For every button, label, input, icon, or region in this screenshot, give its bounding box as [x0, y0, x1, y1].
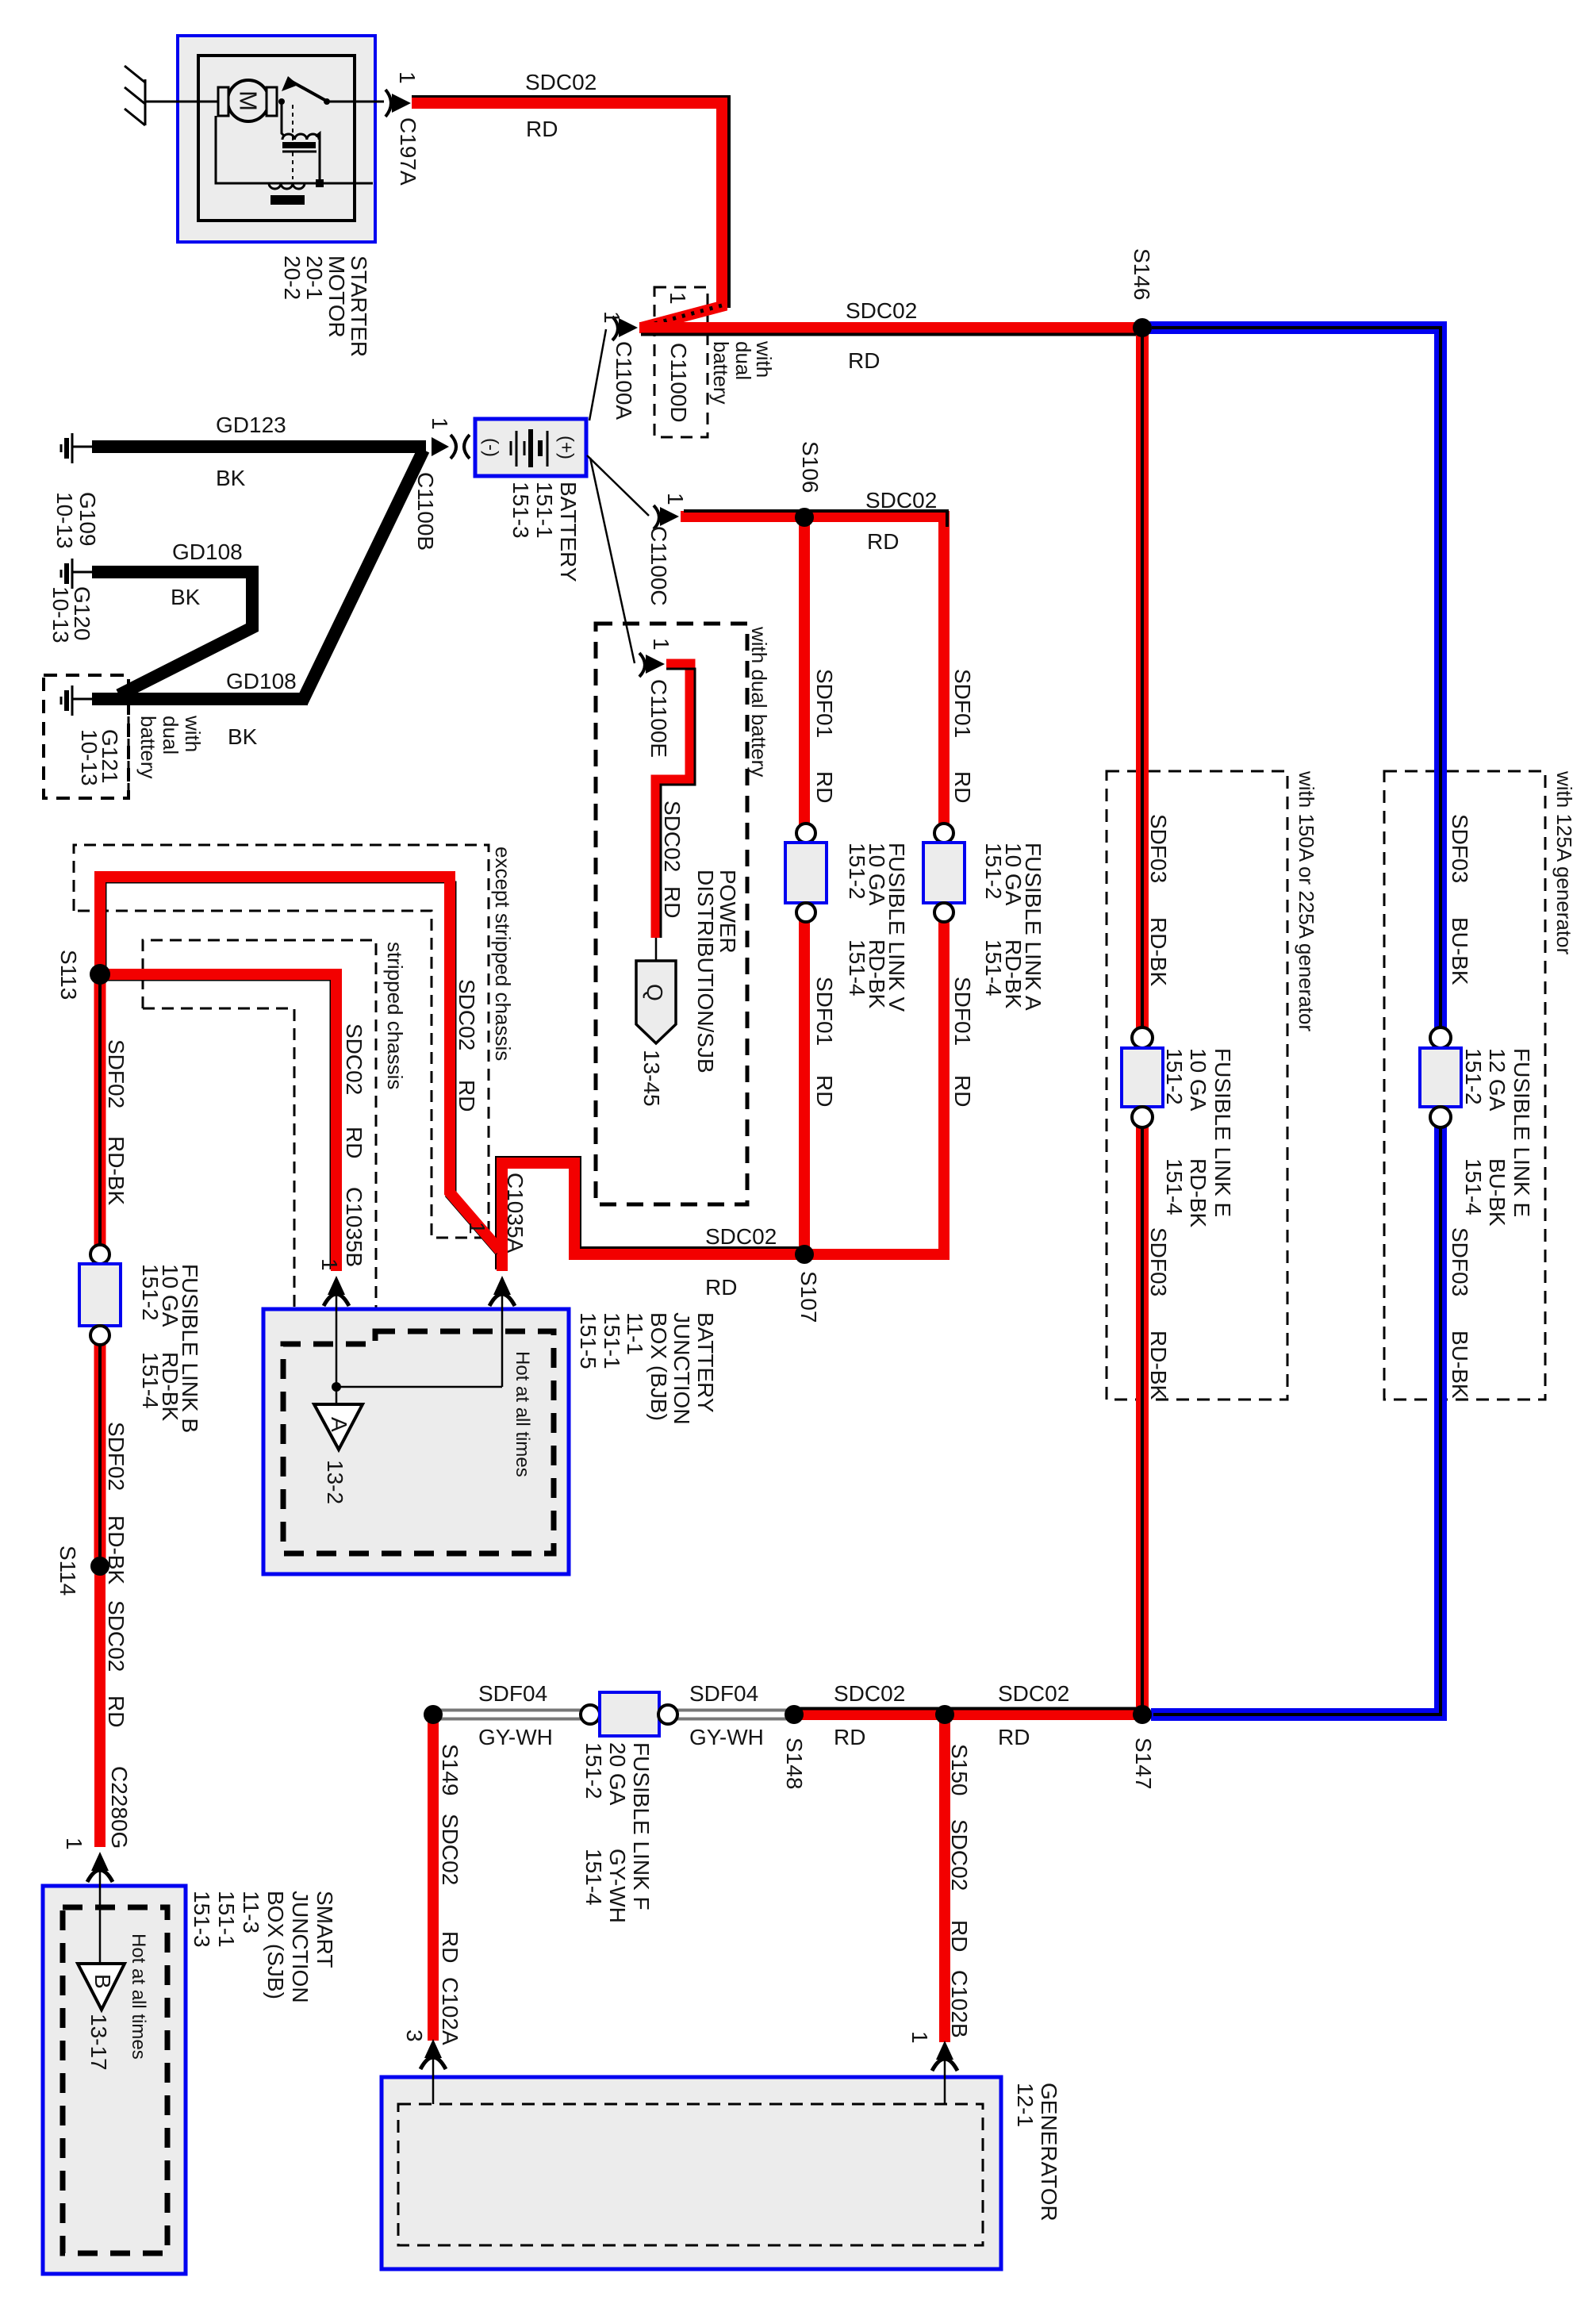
starter ground (hatched) — [125, 66, 219, 125]
svg-text:3: 3 — [402, 2029, 427, 2042]
svg-text:GD108: GD108 — [172, 540, 243, 564]
svg-text:RD: RD — [848, 348, 880, 373]
svg-text:BOX (SJB): BOX (SJB) — [263, 1891, 288, 1999]
svg-text:SDC02: SDC02 — [525, 70, 597, 94]
wire BK diagonal C1100B to G121 — [302, 450, 424, 701]
wire SDF01 RD (link A to S107 corner) — [801, 920, 944, 1254]
svg-text:C1035B: C1035B — [342, 1187, 366, 1267]
wire SDF01 RD (link V down to S107) — [799, 920, 810, 1260]
svg-text:151-2: 151-2 — [845, 843, 869, 900]
svg-text:BK: BK — [171, 585, 201, 609]
svg-text:S106: S106 — [798, 441, 823, 493]
svg-text:SDF04: SDF04 — [478, 1681, 547, 1706]
thin line battery to C1100A — [589, 329, 606, 420]
svg-text:12-1: 12-1 — [1013, 2083, 1038, 2127]
svg-text:1: 1 — [62, 1837, 86, 1850]
svg-text:151-2: 151-2 — [981, 843, 1006, 900]
svg-text:SMART: SMART — [313, 1891, 337, 1968]
svg-text:RD: RD — [438, 1931, 462, 1963]
svg-text:GD108: GD108 — [226, 669, 297, 693]
wire SDC02 RD (battery C1100E into power dist box) — [656, 664, 690, 938]
svg-text:battery: battery — [136, 716, 160, 779]
svg-text:BU-BK: BU-BK — [1448, 1331, 1472, 1399]
wire SDC02 RD (S149 down to C102A) — [428, 1715, 439, 2041]
SJB inner dashed outline — [63, 1907, 167, 2253]
svg-text:C102A: C102A — [438, 1977, 462, 2045]
svg-text:S114: S114 — [56, 1546, 80, 1596]
svg-text:151-1: 151-1 — [214, 1891, 239, 1948]
svg-text:DISTRIBUTION/SJB: DISTRIBUTION/SJB — [693, 870, 718, 1073]
svg-text:BU-BK: BU-BK — [1485, 1158, 1510, 1227]
wire SDF04 GY-WH (link F to S148) — [676, 1709, 794, 1721]
svg-text:20-2: 20-2 — [280, 255, 305, 300]
ground G109 symbol — [61, 433, 94, 463]
svg-text:SDF01: SDF01 — [812, 977, 837, 1046]
svg-text:151-5: 151-5 — [576, 1312, 600, 1369]
connector C1035A symbol — [489, 1276, 515, 1387]
svg-text:with dual battery: with dual battery — [747, 626, 771, 777]
svg-text:RD: RD — [947, 1920, 972, 1952]
connector C1100A symbol — [612, 317, 638, 340]
wire SDC02 RD (C1100C to S106 corner) — [681, 516, 944, 825]
svg-text:20 GA: 20 GA — [605, 1742, 630, 1806]
svg-text:GY-WH: GY-WH — [478, 1725, 553, 1749]
wire SDC02 RD (S107 to C1035A jog): black edge — [497, 1158, 804, 1269]
fusible link F — [581, 1692, 677, 1736]
starter motor symbol — [216, 76, 384, 205]
svg-text:12 GA: 12 GA — [1485, 1048, 1510, 1112]
wire SDC02 RD (S107 left, jog up-over-down to C1035A) — [502, 1163, 804, 1271]
svg-text:SDF03: SDF03 — [1448, 814, 1472, 883]
wire SDC02 RD from C197A: black top edge — [412, 97, 729, 308]
wire SDC02 RD stripped chassis: black edge — [100, 980, 331, 1269]
svg-text:151-4: 151-4 — [581, 1849, 606, 1906]
wire SDC02 RD main horizontal (C1100A to S146) — [639, 322, 1147, 333]
wire GD108 BK (G121 to diagonal) — [92, 693, 308, 705]
svg-text:RD: RD — [812, 771, 837, 803]
wire SDF03 BU-BK (S146 right, down, to S147): blue with black stripe — [1149, 328, 1441, 1028]
svg-text:C1100B: C1100B — [413, 472, 438, 551]
wire SDC02 RD except stripped chassis (S113 up, right, down, diagonal to C1035A) — [100, 877, 500, 1250]
svg-text:C102B: C102B — [947, 1970, 972, 2038]
ground G121 symbol — [61, 685, 94, 716]
svg-text:SDC02: SDC02 — [834, 1681, 905, 1706]
svg-text:RD: RD — [834, 1725, 865, 1749]
svg-text:GY-WH: GY-WH — [605, 1849, 630, 1923]
svg-text:RD-BK: RD-BK — [104, 1136, 129, 1205]
svg-text:151-2: 151-2 — [138, 1264, 163, 1321]
svg-text:RD: RD — [455, 1080, 479, 1112]
svg-text:SDC02: SDC02 — [438, 1814, 462, 1885]
connector C197A symbol — [355, 90, 411, 117]
fusible link B — [79, 1245, 121, 1345]
SJB box (smart junction box) — [43, 1886, 186, 2274]
svg-text:RD: RD — [342, 1127, 366, 1158]
power distribution symbol Q (pentagon) — [636, 961, 676, 1043]
splice S114 — [90, 1557, 109, 1576]
svg-text:10 GA: 10 GA — [1186, 1048, 1210, 1112]
svg-text:S148: S148 — [782, 1738, 807, 1789]
svg-text:1: 1 — [649, 638, 673, 651]
svg-text:C1100E: C1100E — [646, 679, 671, 758]
svg-text:151-3: 151-3 — [190, 1891, 214, 1948]
svg-text:SDC02: SDC02 — [947, 1819, 972, 1891]
svg-text:SDF04: SDF04 — [689, 1681, 758, 1706]
svg-text:RD: RD — [526, 117, 558, 141]
svg-text:with 125A generator: with 125A generator — [1552, 770, 1576, 955]
svg-text:13-2: 13-2 — [323, 1460, 347, 1504]
svg-text:SDC02: SDC02 — [705, 1224, 777, 1249]
splice S149 — [424, 1705, 443, 1724]
wire SDC02 RD (S150 down to C102B) — [939, 1715, 950, 2042]
svg-text:except stripped chassis: except stripped chassis — [491, 847, 515, 1061]
svg-text:S146: S146 — [1130, 248, 1154, 300]
svg-text:RD-BK: RD-BK — [1186, 1158, 1210, 1227]
svg-text:10-13: 10-13 — [52, 492, 77, 549]
starter solenoid switch — [278, 98, 285, 105]
triangle B (power feed) — [78, 1964, 125, 2010]
svg-text:151-1: 151-1 — [532, 482, 557, 539]
svg-text:1: 1 — [428, 417, 452, 430]
svg-text:FUSIBLE LINK E: FUSIBLE LINK E — [1510, 1048, 1534, 1217]
svg-text:(-): (-) — [481, 438, 502, 457]
svg-text:151-2: 151-2 — [1162, 1048, 1187, 1105]
option box: with 150A or 225A generator — [1107, 771, 1287, 1400]
svg-text:SDF01: SDF01 — [812, 669, 837, 738]
svg-text:B: B — [90, 1974, 115, 1989]
svg-text:SDF02: SDF02 — [104, 1422, 129, 1491]
svg-text:battery: battery — [709, 341, 733, 405]
thin line battery to C1100E — [590, 458, 635, 663]
svg-text:20-1: 20-1 — [302, 255, 327, 300]
wire GD123 BK (G109 to C1100B) — [92, 440, 426, 453]
generator inner dashed outline — [398, 2104, 983, 2245]
DASHED — [44, 287, 1545, 1400]
svg-text:SDC02: SDC02 — [660, 801, 685, 872]
svg-text:151-2: 151-2 — [1461, 1048, 1486, 1105]
svg-text:SDF03: SDF03 — [1448, 1227, 1472, 1296]
dotted overlay on C1100A diagonal — [643, 305, 722, 327]
splice S148 — [785, 1705, 804, 1724]
svg-text:SDF01: SDF01 — [950, 977, 975, 1046]
svg-text:SDC02: SDC02 — [104, 1600, 129, 1672]
svg-text:S113: S113 — [56, 950, 81, 1000]
svg-text:RD: RD — [705, 1275, 737, 1300]
svg-text:GD123: GD123 — [216, 413, 286, 437]
svg-text:S147: S147 — [1131, 1738, 1156, 1789]
splice S107 — [795, 1245, 814, 1264]
svg-text:10-13: 10-13 — [77, 729, 102, 786]
svg-text:151-4: 151-4 — [845, 939, 869, 996]
svg-text:RD: RD — [950, 1075, 975, 1107]
option box: with 125A generator — [1384, 771, 1545, 1400]
svg-text:RD: RD — [867, 529, 899, 554]
svg-text:151-4: 151-4 — [981, 939, 1006, 996]
splice S106 — [795, 508, 814, 527]
svg-text:1: 1 — [317, 1258, 342, 1271]
ground G121 dashed option box — [44, 675, 129, 798]
svg-text:BU-BK: BU-BK — [1448, 917, 1472, 985]
svg-text:SDC02: SDC02 — [846, 298, 917, 323]
svg-text:FUSIBLE LINK E: FUSIBLE LINK E — [1210, 1048, 1235, 1217]
svg-text:C1100C: C1100C — [646, 526, 671, 606]
BJB inner dashed outline — [283, 1331, 554, 1553]
svg-text:STARTER: STARTER — [347, 255, 371, 357]
svg-text:151-4: 151-4 — [1461, 1158, 1486, 1215]
fusible link V — [785, 824, 827, 922]
option outline: except stripped chassis — [74, 845, 489, 1238]
wire SDF02 RD-BK (link B down to S114) — [94, 1342, 106, 1566]
svg-text:(+): (+) — [556, 436, 577, 459]
svg-text:SDC02: SDC02 — [998, 1681, 1069, 1706]
splice S147 — [1133, 1705, 1152, 1724]
svg-text:RD-BK: RD-BK — [1146, 917, 1171, 986]
connector C1035B symbol — [324, 1276, 349, 1333]
svg-text:151-4: 151-4 — [138, 1352, 163, 1409]
svg-text:MOTOR: MOTOR — [324, 255, 349, 338]
svg-text:C1100A: C1100A — [612, 341, 636, 420]
svg-text:151-3: 151-3 — [508, 482, 533, 539]
wire SDC02 RD (S114 down to C2280G) — [94, 1566, 106, 1847]
svg-text:Hot at all times: Hot at all times — [512, 1351, 533, 1477]
svg-text:C2280G: C2280G — [107, 1766, 132, 1849]
svg-text:RD: RD — [998, 1725, 1030, 1749]
svg-text:BK: BK — [216, 466, 246, 490]
svg-text:151-4: 151-4 — [1162, 1158, 1187, 1215]
connector C1100E symbol — [639, 653, 665, 677]
wire SDC02 RD except stripped chassis loop: black inner edge — [106, 882, 455, 1192]
svg-text:1: 1 — [395, 71, 420, 84]
svg-text:BOX (BJB): BOX (BJB) — [646, 1312, 671, 1421]
starter hold coil and frame links — [216, 116, 373, 183]
box: POWER DISTRIBUTION/SJB dashed — [596, 624, 747, 1204]
generator box — [382, 2077, 1001, 2269]
svg-text:S149: S149 — [438, 1744, 462, 1795]
starter pull-in coil — [282, 104, 284, 136]
wire GD108 BK (G120 branch) — [92, 572, 252, 695]
svg-text:11-1: 11-1 — [623, 1312, 647, 1355]
svg-text:1: 1 — [907, 2031, 932, 2044]
wire SDC02 RD (S147 horizontal to S148) — [791, 1709, 1142, 1720]
svg-text:with 150A or 225A generator: with 150A or 225A generator — [1295, 770, 1318, 1031]
wire SDF03 RD-BK vertical (S146 to link E) — [1136, 328, 1149, 1028]
svg-text:13-17: 13-17 — [86, 2014, 111, 2071]
splice S113 — [90, 964, 110, 985]
thin line battery to C1100C — [587, 455, 649, 516]
svg-text:FUSIBLE LINK F: FUSIBLE LINK F — [629, 1742, 654, 1910]
svg-text:JUNCTION: JUNCTION — [669, 1312, 694, 1425]
svg-text:stripped chassis: stripped chassis — [383, 942, 407, 1089]
BJB box (battery junction box) — [263, 1309, 569, 1574]
fusible link E (BU-BK side) — [1420, 1027, 1461, 1127]
svg-text:C1100D: C1100D — [666, 343, 691, 423]
connector C102B symbol — [932, 2041, 957, 2104]
svg-text:BK: BK — [228, 724, 258, 749]
svg-text:with: with — [181, 715, 205, 752]
battery box — [475, 419, 586, 476]
svg-text:151-2: 151-2 — [581, 1742, 606, 1799]
svg-text:SDC02: SDC02 — [865, 488, 937, 513]
triangle A (power feed) — [314, 1404, 363, 1450]
svg-text:SDC02: SDC02 — [342, 1023, 366, 1095]
fusible link A — [923, 824, 965, 922]
svg-text:C197A: C197A — [396, 117, 420, 186]
connector C1100D dashed option box — [654, 287, 708, 437]
svg-text:BATTERY: BATTERY — [556, 482, 581, 582]
option outline: stripped chassis — [143, 940, 376, 1342]
wire SDF03 RD-BK vertical (link E to S147) — [1136, 1127, 1149, 1715]
svg-text:dual: dual — [159, 716, 182, 755]
svg-text:1: 1 — [600, 311, 624, 324]
svg-text:G109: G109 — [75, 492, 100, 547]
svg-text:SDF02: SDF02 — [104, 1039, 129, 1108]
svg-text:Q: Q — [643, 984, 667, 1001]
wire SDC02 RD stripped chassis (S113 right, down to C1035B) — [100, 974, 336, 1271]
svg-text:S150: S150 — [947, 1744, 972, 1795]
svg-text:SDF03: SDF03 — [1146, 1227, 1171, 1296]
svg-text:10-13: 10-13 — [48, 586, 73, 643]
BJB internal wiring — [336, 1333, 338, 1404]
wire SDF04 GY-WH (S149 to link F) — [438, 1709, 581, 1721]
wire SDF01 RD (S106 down to link V) — [799, 517, 810, 825]
svg-text:1: 1 — [666, 292, 690, 305]
svg-text:JUNCTION: JUNCTION — [288, 1891, 313, 2003]
svg-text:RD-BK: RD-BK — [104, 1515, 129, 1584]
wire SDF02 RD-BK (S113 down to link B) — [94, 974, 106, 1247]
connector C2280G symbol — [87, 1852, 113, 1912]
connector C1100C symbol — [654, 505, 679, 529]
svg-text:SDF03: SDF03 — [1146, 814, 1171, 883]
wire SDC02 RD from C197A (starter to C1100A) — [412, 103, 722, 328]
splice S146 — [1133, 318, 1152, 337]
fusible link E (RD-BK side) — [1122, 1027, 1163, 1127]
svg-text:BATTERY: BATTERY — [693, 1312, 718, 1413]
svg-text:SDF01: SDF01 — [950, 669, 975, 738]
svg-text:RD: RD — [812, 1075, 837, 1107]
svg-text:M: M — [235, 90, 263, 111]
svg-text:RD: RD — [950, 771, 975, 803]
svg-text:S107: S107 — [796, 1271, 821, 1323]
dashed separator line left of 'with dual battery' (G121) — [128, 716, 130, 796]
connector C1100B symbol — [432, 435, 470, 459]
svg-text:POWER: POWER — [716, 870, 740, 954]
ground G120 symbol — [61, 559, 94, 589]
connector C102A symbol — [420, 2039, 446, 2104]
svg-text:1: 1 — [465, 1222, 489, 1235]
starter motor M1 box — [178, 36, 375, 242]
svg-text:A: A — [327, 1417, 351, 1432]
svg-text:151-1: 151-1 — [600, 1312, 624, 1369]
svg-text:1: 1 — [663, 493, 688, 505]
svg-text:GY-WH: GY-WH — [689, 1725, 764, 1749]
svg-text:C1035A: C1035A — [503, 1173, 528, 1254]
svg-text:RD: RD — [660, 886, 685, 918]
battery cells — [511, 429, 547, 467]
splice S150 — [935, 1705, 954, 1724]
svg-text:13-45: 13-45 — [639, 1050, 664, 1107]
svg-text:Hot at all times: Hot at all times — [128, 1933, 149, 2060]
svg-text:11-3: 11-3 — [239, 1891, 263, 1933]
svg-text:RD-BK: RD-BK — [1146, 1331, 1171, 1400]
svg-text:SDC02: SDC02 — [455, 979, 479, 1050]
svg-text:RD: RD — [104, 1695, 129, 1727]
svg-text:dual: dual — [731, 341, 755, 380]
svg-text:GENERATOR: GENERATOR — [1037, 2083, 1061, 2221]
